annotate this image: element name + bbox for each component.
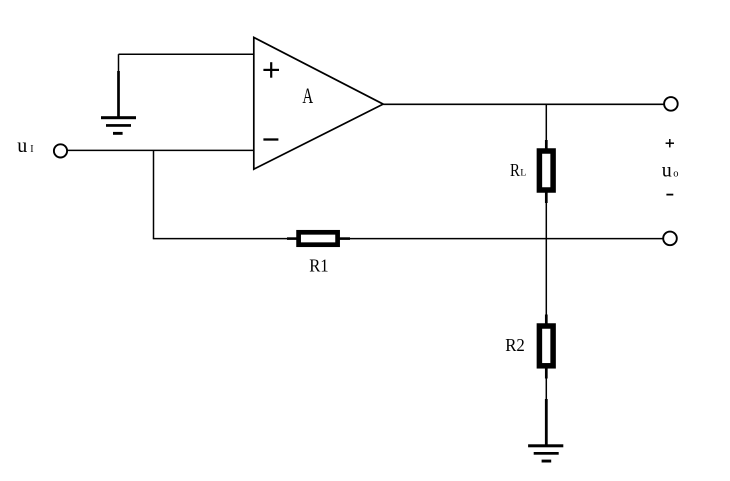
svg-text:R2: R2 bbox=[505, 335, 525, 355]
ground GND1 (at + input) bbox=[101, 54, 136, 135]
svg-text:L: L bbox=[520, 168, 526, 179]
pin lead right of R1 bbox=[339, 237, 350, 240]
svg-text:R: R bbox=[510, 160, 520, 180]
pin lead left of R1 bbox=[287, 237, 297, 240]
resistor RL bbox=[539, 151, 553, 190]
pin lead bottom of R2 bbox=[545, 368, 548, 379]
pin lead top of R2 bbox=[545, 315, 548, 325]
wire: feedback vertical from inverting input bbox=[153, 150, 155, 238]
wire: vertical from output line down to RL bbox=[545, 104, 547, 142]
wire: vertical from RL down across feedback line to R2 bbox=[545, 202, 547, 316]
pin lead bottom of RL bbox=[545, 192, 548, 203]
minus sign inside op-amp bbox=[263, 138, 278, 140]
terminal: output top circle bbox=[664, 97, 678, 111]
wire: non-inverting input top wire bbox=[119, 53, 255, 55]
op-amp U1 (A) bbox=[254, 37, 383, 169]
svg-text:A: A bbox=[302, 84, 313, 108]
pin lead top of RL bbox=[545, 140, 548, 149]
label minus (output polarity) bbox=[666, 194, 673, 196]
wire: op-amp output wire bbox=[383, 103, 664, 105]
plus sign inside op-amp bbox=[263, 69, 279, 71]
resistor R1 bbox=[299, 232, 338, 244]
terminal: input circle bbox=[54, 144, 67, 157]
resistor R2 bbox=[539, 326, 553, 366]
ground GND2 (below R2) bbox=[528, 399, 563, 463]
terminal: output bottom circle bbox=[663, 232, 677, 246]
label plus (output polarity) bbox=[666, 139, 674, 147]
svg-text:R1: R1 bbox=[309, 256, 328, 276]
wire: vertical from R2 down to ground bbox=[545, 378, 547, 402]
wire: feedback horizontal left of R1 bbox=[153, 238, 288, 240]
wire: inverting input wire bbox=[67, 149, 254, 151]
wire: feedback horizontal right of R1 to bottom output terminal bbox=[349, 238, 664, 240]
